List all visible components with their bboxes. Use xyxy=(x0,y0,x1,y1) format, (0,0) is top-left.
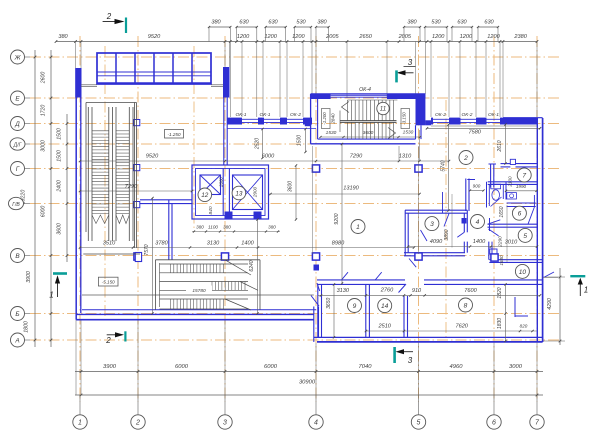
svg-text:3: 3 xyxy=(223,420,227,427)
axis circle 4 bottom xyxy=(309,415,323,429)
room circle 7 xyxy=(517,168,531,182)
dimension 5740 xyxy=(440,123,449,211)
svg-text:-5.150: -5.150 xyxy=(102,280,115,285)
svg-text:9520: 9520 xyxy=(148,34,161,40)
svg-text:12: 12 xyxy=(201,192,209,199)
svg-text:9200: 9200 xyxy=(334,213,340,224)
axis circle D xyxy=(11,117,31,131)
svg-text:2520: 2520 xyxy=(255,138,261,150)
svg-text:3: 3 xyxy=(408,58,413,67)
svg-text:630: 630 xyxy=(268,19,278,25)
grid auxiliary vertical centerline x446 xyxy=(445,100,447,340)
exit door swing right xyxy=(543,272,558,278)
wall stub room5 left xyxy=(489,242,497,260)
svg-text:3600: 3600 xyxy=(288,181,294,192)
svg-text:4: 4 xyxy=(314,420,318,427)
svg-text:1: 1 xyxy=(584,286,588,295)
stairwell upper walls xyxy=(305,94,431,144)
svg-text:2: 2 xyxy=(463,155,468,162)
dimension line 13190 xyxy=(269,186,421,196)
extension lines bottom xyxy=(76,320,537,415)
svg-text:6000: 6000 xyxy=(175,364,189,370)
axis circle A xyxy=(11,333,31,347)
left stair enclosure xyxy=(83,103,140,255)
corridor wall above rooms 9-14-8 xyxy=(317,280,543,293)
svg-text:6000: 6000 xyxy=(41,206,47,218)
stairwell upper treads xyxy=(340,100,397,139)
axis circle 7 bottom xyxy=(530,415,544,429)
room circle 5 xyxy=(518,228,532,242)
grid auxiliary vertical centerline x105 xyxy=(104,46,106,318)
door swing room14 xyxy=(375,272,382,280)
dimension 2610 xyxy=(497,123,507,164)
axis circle E xyxy=(11,91,31,105)
column extension lines xyxy=(313,146,452,254)
svg-text:3000: 3000 xyxy=(41,140,47,152)
column at (418.5,168.5) xyxy=(415,165,422,172)
column at (418.5,256.5) xyxy=(415,253,422,260)
svg-text:2660: 2660 xyxy=(218,177,223,188)
svg-text:Е: Е xyxy=(15,95,20,102)
door swing room9 xyxy=(342,272,349,280)
svg-text:380: 380 xyxy=(407,19,417,25)
svg-text:1: 1 xyxy=(356,224,360,231)
svg-text:3780: 3780 xyxy=(155,241,168,247)
dimension 2660 xyxy=(218,177,223,188)
svg-text:13190: 13190 xyxy=(343,186,359,192)
svg-text:530: 530 xyxy=(296,19,306,25)
svg-text:1100: 1100 xyxy=(208,225,218,230)
svg-text:1530: 1530 xyxy=(326,130,337,136)
column at (316,168.5) xyxy=(312,165,319,172)
level mark -1.200 xyxy=(322,109,336,129)
wall room7 left xyxy=(489,164,497,188)
svg-text:8980: 8980 xyxy=(332,241,345,247)
dimension line y295 xyxy=(318,288,541,297)
grid axis 3 vertical centerline xyxy=(224,36,226,402)
column at (316,256.5) xyxy=(312,253,319,260)
grid axis 1 vertical centerline xyxy=(79,36,81,402)
label OK window at 440.5 xyxy=(435,112,446,118)
svg-text:6000: 6000 xyxy=(262,154,275,160)
column at (494.5,257.5) xyxy=(491,254,498,261)
axis circle B xyxy=(11,307,31,321)
svg-text:ОК-1: ОК-1 xyxy=(488,112,499,118)
svg-text:1500: 1500 xyxy=(57,128,63,140)
wall room4-room6 passage xyxy=(488,218,500,236)
bay window band top-left xyxy=(97,53,211,84)
grid axis D horizontal centerline xyxy=(30,123,560,125)
svg-text:6000: 6000 xyxy=(264,364,278,370)
dimension 9200 xyxy=(334,143,343,285)
dimension 1500 v xyxy=(297,128,307,153)
label OK window at 265 xyxy=(259,112,270,118)
svg-text:1500: 1500 xyxy=(57,150,63,162)
wall room6-room5 xyxy=(488,195,538,227)
svg-text:380: 380 xyxy=(196,225,204,230)
axis circle D/G xyxy=(10,138,30,150)
svg-text:А: А xyxy=(14,337,19,344)
elevator car 13 with cross xyxy=(233,175,263,210)
svg-text:1400: 1400 xyxy=(241,241,254,247)
grid auxiliary vertical centerline x194 xyxy=(193,46,195,232)
wall on axis V bottom room3 xyxy=(404,253,465,256)
left stair treads xyxy=(92,131,129,224)
dimension 1680 xyxy=(499,255,504,266)
svg-text:2100: 2100 xyxy=(508,176,513,188)
label OK window at 295.5 xyxy=(290,112,301,118)
svg-text:1820: 1820 xyxy=(497,287,503,298)
svg-text:1200: 1200 xyxy=(432,34,445,40)
column at (137.5,256.5) xyxy=(134,253,141,260)
svg-text:1200: 1200 xyxy=(292,34,305,40)
grid axis E horizontal centerline xyxy=(30,97,560,99)
pier left of bay window xyxy=(75,68,81,98)
svg-text:1200: 1200 xyxy=(487,34,500,40)
svg-text:1200: 1200 xyxy=(237,34,250,40)
svg-text:630: 630 xyxy=(457,19,467,25)
dimension 900 xyxy=(469,184,485,192)
svg-text:4090: 4090 xyxy=(430,239,443,245)
svg-text:2: 2 xyxy=(105,336,111,345)
svg-text:2290: 2290 xyxy=(498,236,503,248)
wall room5-room10 xyxy=(489,260,542,263)
svg-text:2840: 2840 xyxy=(331,113,336,125)
dimension 6240 xyxy=(249,218,259,314)
grid axis DG horizontal centerline xyxy=(30,143,560,145)
label OK window at 493.5 xyxy=(488,112,499,118)
window wall left group xyxy=(227,118,312,125)
sink fixture xyxy=(507,193,536,207)
wall top-right segment xyxy=(503,117,543,119)
door swing room3 left xyxy=(421,230,428,241)
dimension 7580 xyxy=(426,127,541,135)
svg-text:11: 11 xyxy=(380,106,386,113)
svg-text:7290: 7290 xyxy=(125,184,138,190)
svg-text:2610: 2610 xyxy=(497,140,503,152)
grid axis 6 vertical centerline xyxy=(493,36,495,402)
dimension line left total 19220 xyxy=(21,50,37,347)
axis circle 1 bottom xyxy=(73,415,87,429)
level mark -3.150 xyxy=(401,109,410,129)
dimension line y247 xyxy=(79,241,415,249)
svg-text:1680: 1680 xyxy=(499,255,504,266)
svg-text:2900: 2900 xyxy=(253,186,258,198)
svg-text:380: 380 xyxy=(211,19,221,25)
extension lines top xyxy=(76,42,538,118)
svg-text:9520: 9520 xyxy=(146,154,159,160)
svg-text:3900: 3900 xyxy=(103,364,117,370)
axis circle 3 bottom xyxy=(218,415,232,429)
extension stubs stairwell dims xyxy=(399,130,420,161)
svg-text:630: 630 xyxy=(484,19,494,25)
room8 closet walls xyxy=(515,297,528,317)
svg-text:3900: 3900 xyxy=(26,271,32,283)
dimension line bottom total 30900 xyxy=(75,380,543,397)
svg-text:3010: 3010 xyxy=(505,239,518,245)
WC with toilet xyxy=(487,182,507,208)
svg-text:630: 630 xyxy=(239,19,249,25)
svg-text:Г: Г xyxy=(16,166,20,173)
svg-text:10: 10 xyxy=(519,269,527,276)
dimension line elevator y231 xyxy=(192,225,280,233)
svg-text:1: 1 xyxy=(78,420,82,427)
svg-text:1: 1 xyxy=(49,291,53,300)
svg-text:1800: 1800 xyxy=(24,321,30,333)
grid axis GV horizontal centerline xyxy=(30,203,560,205)
svg-text:900: 900 xyxy=(473,184,481,189)
elevator shaft enclosure xyxy=(192,165,269,219)
lower stair enclosure xyxy=(156,260,261,310)
grid axis A horizontal centerline xyxy=(30,339,560,341)
svg-text:9: 9 xyxy=(353,303,357,310)
svg-text:ОК-2: ОК-2 xyxy=(461,112,472,118)
svg-text:3650: 3650 xyxy=(326,298,332,309)
grid axis Zh horizontal centerline xyxy=(30,56,560,58)
wall left outer xyxy=(76,68,81,320)
dimension 2100 xyxy=(508,176,513,188)
svg-text:840: 840 xyxy=(208,206,214,214)
dimension stepped row upper xyxy=(208,19,499,41)
svg-text:3600: 3600 xyxy=(363,130,374,136)
svg-text:6: 6 xyxy=(492,420,496,427)
svg-text:ОК-2: ОК-2 xyxy=(435,112,446,118)
door swing at step xyxy=(311,296,319,307)
svg-text:6240: 6240 xyxy=(249,260,255,271)
svg-text:1200: 1200 xyxy=(264,34,277,40)
section marker 3 bottom xyxy=(393,347,413,365)
svg-text:8: 8 xyxy=(464,302,468,309)
elevator door stubs xyxy=(225,212,262,220)
dimension 2900 xyxy=(253,186,258,198)
svg-text:820: 820 xyxy=(520,324,528,329)
dimension line top row xyxy=(55,40,539,43)
axis circle 2 bottom xyxy=(131,415,145,429)
svg-text:30900: 30900 xyxy=(299,380,316,386)
wall corridor G/V xyxy=(140,200,192,204)
svg-text:ОК-4: ОК-4 xyxy=(359,87,371,93)
svg-text:3890: 3890 xyxy=(444,229,450,240)
axis circle 6 bottom xyxy=(487,415,501,429)
axis circle V xyxy=(11,249,31,263)
grid axis V horizontal centerline xyxy=(30,255,560,257)
section marker 1 left xyxy=(49,272,67,299)
door box corridor xyxy=(314,265,320,271)
svg-text:15780: 15780 xyxy=(192,288,206,294)
svg-text:4: 4 xyxy=(476,219,480,226)
wall bottom-left band xyxy=(76,310,316,320)
svg-text:7570: 7570 xyxy=(144,244,150,255)
lower stair flights xyxy=(160,260,259,310)
room circle 2 xyxy=(459,151,473,165)
dimension 7570 xyxy=(144,197,154,315)
svg-text:-1.250: -1.250 xyxy=(167,132,180,137)
svg-text:2005: 2005 xyxy=(325,34,339,40)
stairwell room circle 11 xyxy=(377,102,389,114)
svg-text:1400: 1400 xyxy=(473,239,486,245)
svg-text:2005: 2005 xyxy=(398,34,412,40)
dimension 1820 1830 xyxy=(497,283,507,342)
svg-text:3130: 3130 xyxy=(337,288,350,294)
door frame box room7 xyxy=(510,159,515,164)
pier right of bay window xyxy=(223,67,230,98)
axis circle G/V xyxy=(9,197,31,209)
svg-text:14: 14 xyxy=(381,303,389,310)
dimension 2520 xyxy=(255,128,264,159)
wall room7 top xyxy=(501,164,538,167)
dimension line y246 rooms 3-4-5 xyxy=(407,239,538,248)
svg-text:530: 530 xyxy=(431,19,441,25)
left stair rails xyxy=(88,107,133,241)
svg-text:7620: 7620 xyxy=(455,324,468,330)
room circle 14 xyxy=(378,299,392,313)
room circle 8 xyxy=(459,298,473,312)
dimension line y191 xyxy=(79,184,193,192)
level mark -5.150 xyxy=(98,277,118,286)
svg-text:2: 2 xyxy=(106,12,112,21)
svg-text:4290: 4290 xyxy=(547,298,553,310)
elevator room circle 13 xyxy=(232,186,246,200)
svg-text:380: 380 xyxy=(58,34,68,40)
inner face line bottom-left xyxy=(82,294,314,296)
svg-text:Г/В: Г/В xyxy=(12,202,20,208)
wall left-block east xyxy=(224,98,227,166)
svg-text:7290: 7290 xyxy=(350,154,363,160)
wall box at y164.5 xyxy=(134,165,140,171)
svg-text:-1.200: -1.200 xyxy=(322,112,327,125)
elevator car 12 with cross xyxy=(200,175,221,195)
svg-text:ОК-1: ОК-1 xyxy=(259,112,270,118)
wall box at y201.5 xyxy=(134,202,140,208)
svg-text:1990: 1990 xyxy=(516,184,527,189)
dimension line y331 xyxy=(365,324,537,333)
svg-text:2400: 2400 xyxy=(57,180,63,193)
svg-text:380: 380 xyxy=(317,19,327,25)
room circle 3 xyxy=(425,217,439,231)
dimension 840 xyxy=(208,206,214,214)
dimension stairwell 1530 3600 1530 xyxy=(319,130,421,139)
dimension line left inner column xyxy=(57,114,69,262)
svg-text:ОК-2: ОК-2 xyxy=(290,112,301,118)
svg-text:3130: 3130 xyxy=(207,241,220,247)
label OK-4 xyxy=(359,87,371,93)
door swing room3 bottom xyxy=(409,259,416,268)
svg-text:3: 3 xyxy=(408,356,413,365)
svg-text:2: 2 xyxy=(135,420,140,427)
section marker 1 right xyxy=(570,275,588,296)
room circle 9 xyxy=(348,299,362,313)
dimension 1990 xyxy=(505,184,538,192)
bay window sill lines xyxy=(81,85,223,87)
grid axis 4 vertical centerline xyxy=(315,36,317,402)
wall bottom-right outer xyxy=(314,337,543,342)
wall room9 left xyxy=(318,284,322,337)
room3 walls xyxy=(405,210,467,256)
wall right outer xyxy=(537,118,542,342)
svg-text:-3.150: -3.150 xyxy=(402,112,407,125)
svg-text:1720: 1720 xyxy=(41,105,47,117)
svg-text:Ж: Ж xyxy=(14,54,22,61)
svg-text:2510: 2510 xyxy=(377,324,391,330)
wall room14-room8 xyxy=(404,296,408,337)
svg-text:Б: Б xyxy=(15,311,19,318)
svg-text:5: 5 xyxy=(417,420,421,427)
svg-text:Д/Г: Д/Г xyxy=(13,142,23,148)
room circle 6 xyxy=(512,206,526,220)
room circle 1 xyxy=(351,220,365,234)
dimension 1650 xyxy=(499,205,507,262)
label OK window at 241 xyxy=(235,112,246,118)
dimension line right 4290 xyxy=(543,268,565,345)
door box room4 xyxy=(462,218,467,224)
grid axis B horizontal centerline xyxy=(30,313,560,315)
svg-text:910: 910 xyxy=(412,288,422,294)
dimension 3600 v xyxy=(288,164,298,220)
wall step between bottoms xyxy=(314,307,319,342)
svg-text:4960: 4960 xyxy=(450,364,464,370)
wall interior x170 xyxy=(169,200,172,260)
dimension 3650 xyxy=(326,283,335,338)
grid axis 2 vertical centerline xyxy=(137,36,139,402)
section marker 2 bottom xyxy=(105,331,126,345)
svg-text:5740: 5740 xyxy=(440,160,446,171)
svg-text:2380: 2380 xyxy=(513,34,527,40)
svg-text:2650: 2650 xyxy=(358,34,372,40)
svg-text:1830: 1830 xyxy=(497,318,503,329)
door leaf room3 top xyxy=(442,192,444,213)
svg-text:1650: 1650 xyxy=(499,206,505,217)
dimension labels bottom first row xyxy=(103,364,523,370)
svg-text:5: 5 xyxy=(523,233,527,240)
window wall inner face left xyxy=(227,128,316,130)
level mark -1.250 xyxy=(165,130,184,139)
dimension line bottom first row xyxy=(75,370,543,373)
elevator room circle 12 xyxy=(198,188,212,202)
dimension line y161 xyxy=(79,154,450,163)
svg-text:6: 6 xyxy=(518,211,522,218)
grid axis G horizontal centerline xyxy=(30,168,560,170)
wall room2-room4 xyxy=(444,179,475,227)
dimension line left main column xyxy=(24,50,53,347)
column at (225,256.5) xyxy=(221,253,228,260)
wall room9-room14 xyxy=(366,284,370,337)
svg-text:7600: 7600 xyxy=(464,288,477,294)
svg-text:7: 7 xyxy=(522,172,526,179)
axis circle 5 bottom xyxy=(411,415,425,429)
section marker 2 top xyxy=(103,12,128,33)
svg-text:380: 380 xyxy=(268,225,276,230)
svg-text:3510: 3510 xyxy=(103,241,116,247)
room circle 4 xyxy=(471,215,485,229)
svg-text:3000: 3000 xyxy=(509,364,523,370)
svg-text:В: В xyxy=(15,253,20,260)
svg-text:3600: 3600 xyxy=(57,223,63,235)
svg-text:1500: 1500 xyxy=(297,135,303,146)
grid axis 5 vertical centerline xyxy=(418,36,420,402)
svg-text:2600: 2600 xyxy=(41,72,47,85)
svg-text:1530: 1530 xyxy=(403,130,414,136)
svg-text:ОК-1: ОК-1 xyxy=(235,112,246,118)
wall room7-room6 xyxy=(488,182,538,185)
wall box at y252 xyxy=(135,253,141,262)
section marker 3 top xyxy=(395,58,415,83)
svg-text:7040: 7040 xyxy=(359,364,373,370)
dimension 3890 2290 xyxy=(444,229,503,247)
svg-text:Д: Д xyxy=(14,121,20,128)
grid axis 7 vertical centerline xyxy=(536,36,538,402)
svg-text:13: 13 xyxy=(235,190,243,197)
svg-text:7580: 7580 xyxy=(468,130,481,136)
